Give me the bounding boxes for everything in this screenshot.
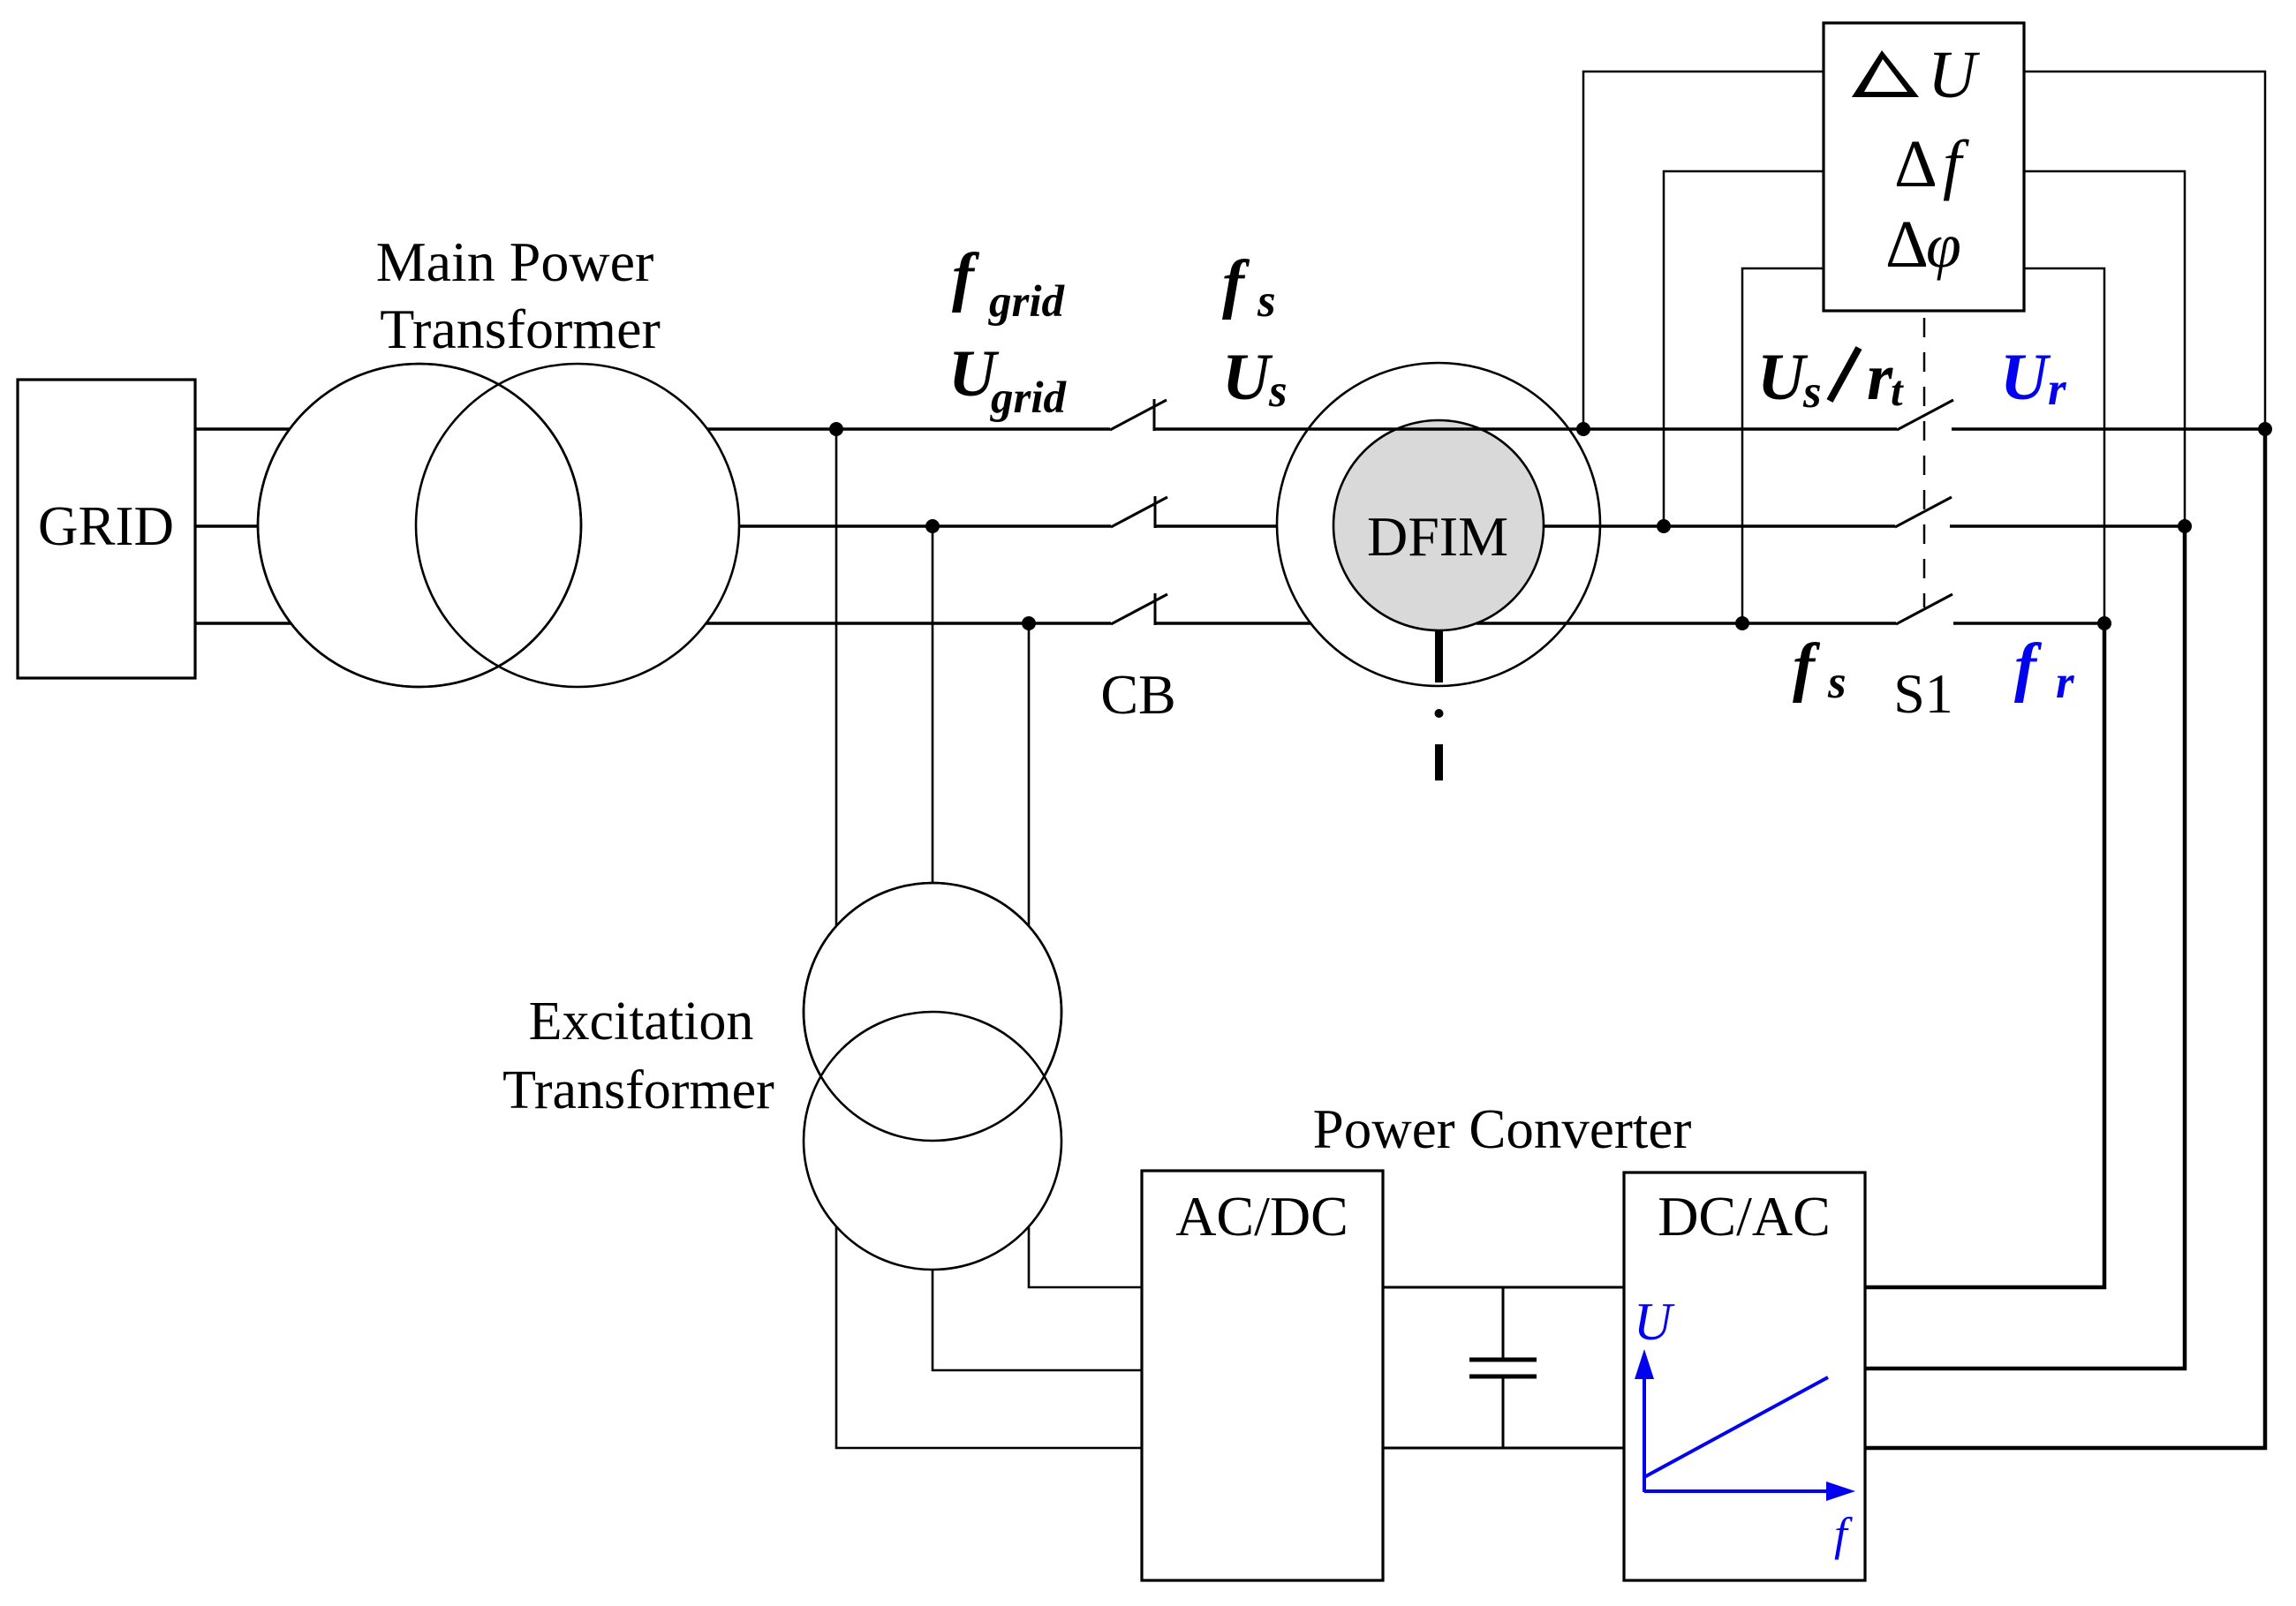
wire phase B GRID to T1	[195, 524, 258, 527]
svg-text:CB: CB	[1100, 663, 1175, 726]
wire rotor phase A S1 to node	[1952, 427, 2265, 430]
wire measurement loop A left	[1583, 72, 1824, 429]
wire phase A T1 to CB	[707, 427, 1110, 430]
wire stator phase B DFIM to S1	[1544, 524, 1895, 527]
svg-text:DC/AC: DC/AC	[1658, 1185, 1831, 1248]
switch S1 phase B blade	[1895, 497, 1952, 527]
converter box DC/AC	[1624, 1172, 1865, 1580]
wire phase A GRID to T1	[195, 427, 290, 430]
node stator measurement tap B	[1657, 519, 1671, 533]
label Us / rt ratio : slash	[1830, 348, 1859, 401]
svg-text:Excitation: Excitation	[529, 991, 754, 1052]
wire phase C GRID to T1	[195, 622, 291, 624]
wire grid tap phase A to AC/DC	[836, 429, 1142, 1448]
capacitor C DC link top lead	[1502, 1287, 1505, 1360]
node stator measurement tap C	[1735, 616, 1749, 630]
wire grid tap phase B to AC/DC	[933, 526, 1142, 1370]
V/f curve U axis inside DC/AC	[1643, 1370, 1646, 1492]
wire phase C T1 to CB	[706, 622, 1111, 624]
label delta U : delta	[1852, 50, 1919, 97]
breaker CB phase A contact	[1153, 399, 1156, 431]
node rotor B	[2178, 519, 2192, 533]
svg-text:Transformer: Transformer	[502, 1060, 774, 1120]
V/f curve f axis arrowhead	[1826, 1482, 1855, 1501]
cable rotor B to DC/AC	[1865, 526, 2185, 1368]
cable rotor A to DC/AC	[1865, 429, 2265, 1448]
transformer T2 excitation circle bottom	[804, 1012, 1061, 1270]
V/f curve f axis	[1644, 1489, 1830, 1493]
redraw top arc	[804, 883, 1061, 1141]
switch S1 phase A blade	[1897, 400, 1953, 430]
wire measurement loop B left	[1664, 171, 1824, 526]
svg-text:U: U	[1928, 38, 1980, 112]
shaft axis dash	[1435, 744, 1443, 780]
svg-text:AC/DC: AC/DC	[1175, 1185, 1348, 1248]
V/f curve U axis arrowhead	[1635, 1349, 1654, 1379]
capacitor C top plate	[1469, 1358, 1537, 1362]
capacitor C bottom lead	[1502, 1376, 1505, 1448]
wire DC link bottom	[1383, 1447, 1624, 1450]
svg-text:Main Power: Main Power	[376, 230, 654, 293]
node grid tap C	[1022, 616, 1036, 630]
synchronizer box deltaU deltaf deltaphi	[1824, 23, 2024, 311]
machine DFIM rotor inner circle	[1333, 420, 1544, 630]
wire measurement loop C right	[2024, 268, 2104, 623]
node grid tap B	[925, 519, 940, 533]
shaft axis dot	[1435, 709, 1444, 718]
wire rotor phase C S1 to node	[1953, 622, 2104, 624]
GRID box	[18, 380, 195, 678]
node grid tap A	[829, 422, 843, 436]
svg-text:Δ: Δ	[1894, 127, 1937, 201]
node stator measurement tap A	[1576, 422, 1590, 436]
cable rotor C to DC/AC	[1865, 623, 2104, 1287]
svg-text:U: U	[1634, 1293, 1675, 1351]
breaker CB phase A blade	[1110, 400, 1167, 430]
wire stator phase C CB to DFIM	[1155, 622, 1311, 624]
machine DFIM stator outer circle	[1277, 363, 1600, 686]
converter box AC/DC	[1142, 1171, 1383, 1580]
redraw left arc over right circle fill	[258, 364, 581, 687]
wire measurement loop C left	[1742, 268, 1824, 623]
transformer T2 excitation circle top	[804, 883, 1061, 1141]
wire stator phase B CB to DFIM	[1155, 524, 1278, 527]
wire grid tap phase C to AC/DC	[1029, 623, 1142, 1287]
svg-text:Transformer: Transformer	[380, 298, 661, 360]
dashed S1 actuator line	[1923, 318, 1926, 607]
switch S1 phase C blade	[1896, 594, 1952, 624]
breaker CB phase C contact	[1154, 593, 1157, 625]
wire measurement loop B right	[2024, 171, 2185, 526]
svg-text:GRID: GRID	[38, 495, 174, 557]
V/f characteristic sloped line	[1644, 1377, 1828, 1477]
shaft stub below DFIM	[1435, 630, 1443, 682]
node rotor A	[2258, 422, 2272, 436]
wire stator phase A CB to S1 across DFIM	[1154, 427, 1897, 430]
breaker CB phase B blade	[1111, 497, 1167, 527]
breaker CB phase B contact	[1154, 496, 1157, 528]
wire phase B T1 to CB	[739, 524, 1111, 527]
transformer T1 main power circle left	[258, 364, 581, 687]
svg-text:S1: S1	[1893, 662, 1953, 725]
wire measurement loop A right	[2024, 72, 2265, 429]
transformer T1 main power circle right	[416, 364, 739, 687]
node rotor C	[2097, 616, 2111, 630]
wire rotor phase B S1 to node	[1950, 524, 2185, 527]
capacitor C bottom plate	[1469, 1375, 1537, 1379]
svg-text:φ: φ	[1926, 210, 1961, 281]
svg-text:DFIM: DFIM	[1367, 505, 1508, 568]
wire stator phase C DFIM to S1	[1477, 622, 1896, 624]
breaker CB phase C blade	[1111, 594, 1167, 624]
wire DC link top	[1383, 1286, 1624, 1289]
svg-text:Power Converter: Power Converter	[1313, 1098, 1692, 1160]
svg-text:Δ: Δ	[1885, 207, 1929, 282]
